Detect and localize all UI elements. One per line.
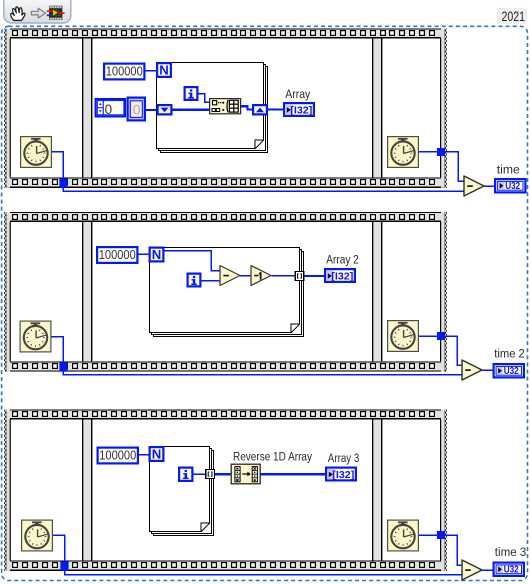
svg-text:U32: U32: [504, 565, 519, 576]
svg-text:N: N: [159, 62, 169, 77]
decrement node -1, loop 2: [251, 266, 271, 286]
sequence 3 bottom sprocket band: [6, 561, 445, 571]
svg-text:100000: 100000: [99, 447, 136, 462]
sequence 2 bottom sprocket band: [6, 361, 445, 371]
tunnel through sequence 1 right border (right timer): [437, 148, 445, 156]
iteration terminal i (loop 1): [185, 87, 198, 100]
wire: [63, 372, 462, 375]
svg-text:N: N: [152, 247, 162, 262]
svg-text:time 3: time 3: [495, 547, 527, 559]
wire: [445, 152, 464, 182]
svg-text:[I32]: [I32]: [290, 105, 312, 116]
sequence 2 right checkered film edge: [444, 212, 447, 372]
sequence 3 separator 2 gray: [373, 420, 381, 561]
iteration terminal i (loop 2): [188, 274, 201, 287]
svg-text:0: 0: [105, 102, 113, 117]
shift register left (down arrow, loop 1): [158, 105, 172, 114]
wire: [63, 188, 464, 191]
wire: [419, 151, 437, 153]
tunnel through sequence 1 bottom border (left timer): [59, 179, 67, 188]
sequence 1 bottom sprocket band: [6, 177, 445, 187]
sequence 3 top sprocket band: [6, 410, 445, 420]
wire: [304, 275, 324, 277]
sequence 3 right checkered film edge: [444, 410, 447, 571]
sequence 3 right gray edge: [441, 410, 445, 571]
sequence 1 left checkered film edge: [4, 29, 7, 188]
shift register right (up arrow, loop 1): [253, 105, 267, 114]
numeric constant 100000 (seq 2): [97, 247, 137, 263]
sequence 2 right gray edge: [441, 212, 445, 372]
for loop 2 (stacked pages with dog-ear): [150, 248, 304, 337]
indicator Array 2 (1-D array of I32): [325, 269, 355, 282]
sequence 2 frame 1 (left) border: [10, 222, 84, 361]
indicator Array (1-D array of I32): [284, 103, 314, 116]
wire: [139, 253, 149, 255]
run (arrow) tool icon: [31, 8, 45, 18]
svg-text:N: N: [152, 446, 162, 461]
wire: [482, 569, 493, 571]
VI snippet icon: [47, 6, 65, 20]
wire: [240, 275, 251, 277]
wire: [202, 280, 221, 282]
svg-text:time: time: [497, 165, 520, 177]
indicator Array 3 (1-D array of I32): [326, 468, 356, 481]
sequence 3 frame 1 (left) border: [10, 420, 84, 561]
wire: [52, 152, 63, 179]
tick count (ms) timer, seq 2 frame 1: [20, 321, 51, 352]
svg-text:100000: 100000: [106, 63, 143, 78]
numeric constant 100000 (seq 1): [104, 63, 144, 79]
sequence 1 frame 3 (right) border: [381, 39, 441, 178]
wire: [484, 185, 494, 187]
svg-text:U32: U32: [504, 366, 519, 377]
wire: [52, 337, 64, 363]
wire: [146, 70, 157, 72]
svg-text:time 2: time 2: [494, 349, 525, 361]
wire: [165, 251, 221, 271]
2021 version badge: [497, 8, 528, 24]
sequence 2 frame 3 (right) border: [381, 222, 441, 361]
tick count (ms) timer U2, frame 1 left: [21, 137, 52, 168]
sequence 2 left gray edge: [6, 212, 10, 372]
svg-text:Reverse 1D Array: Reverse 1D Array: [233, 451, 312, 463]
wire: [268, 108, 283, 110]
tick count (ms) timer, seq 3 frame 3: [388, 520, 419, 551]
build array node (loop 1): [210, 99, 241, 114]
wire: [419, 534, 437, 536]
loop count terminal N (loop 1): [157, 62, 171, 77]
wire: [199, 94, 210, 103]
svg-text:Array: Array: [285, 89, 310, 101]
indicator time 3 (U32): [494, 563, 524, 576]
loop count terminal N (loop 2): [150, 247, 164, 262]
wire: [241, 106, 253, 109]
indicator time (U32): [495, 179, 525, 192]
subtract node for time: [464, 176, 484, 196]
indicator time 2 (U32): [494, 364, 524, 377]
sequence 1 left gray edge: [6, 29, 10, 188]
subtract node for time 2: [462, 360, 482, 380]
sequence 2 top sprocket band: [6, 212, 445, 222]
wire: [445, 336, 462, 365]
svg-text:U32: U32: [505, 181, 520, 192]
svg-text:2021: 2021: [502, 9, 526, 24]
svg-text:Array 3: Array 3: [328, 453, 360, 465]
wire: [139, 454, 149, 456]
sequence 3 left gray edge: [6, 410, 10, 571]
tunnel through sequence 2 bottom border: [59, 362, 67, 371]
subtract node (N - i), loop 2: [220, 266, 240, 286]
sequence 3 frame 3 (right) border: [381, 420, 441, 561]
auto-indexing tunnel (loop 3 right border): [206, 470, 215, 479]
wire: [65, 571, 463, 575]
sequence 1 top sprocket band: [6, 29, 445, 39]
sequence 1 right checkered film edge: [444, 29, 447, 188]
for loop 1 (stacked pages with dog-ear): [157, 63, 268, 153]
tunnel through sequence 3 bottom border: [60, 562, 68, 571]
tick count (ms) timer, seq 2 frame 3: [388, 321, 419, 352]
tunnel through sequence 2 right border: [437, 332, 445, 340]
numeric control 0 with increment/decrement (shift register initializer): [96, 99, 125, 117]
tunnel through sequence 3 right border: [437, 531, 445, 539]
reverse 1D array node: [231, 464, 260, 484]
loop count terminal N (loop 3): [150, 446, 164, 461]
sequence 1 frame 1 (left) border: [10, 39, 84, 178]
sequence 2 frame 2 (middle) border: [91, 222, 373, 361]
numeric constant 100000 (seq 3): [98, 447, 138, 463]
svg-text:Array 2: Array 2: [326, 255, 359, 267]
svg-text:100000: 100000: [99, 247, 136, 262]
sequence 3 separator 1 gray: [83, 420, 91, 561]
sequence 1 right gray edge: [441, 29, 445, 188]
wire: [272, 275, 296, 277]
sequence 2 left checkered film edge: [4, 212, 7, 372]
svg-text:0: 0: [133, 101, 141, 117]
sequence 1 separator 1 gray: [83, 39, 91, 178]
sequence 2 separator 2 gray: [373, 222, 381, 361]
tick count (ms) timer U3, frame 3 right: [388, 137, 419, 168]
wire: [482, 369, 493, 371]
wire: [445, 535, 462, 565]
numeric constant 0 (lavender, feeds shift register): [128, 98, 145, 121]
subtract node for time 3: [462, 560, 482, 580]
sequence 3 left checkered film edge: [4, 410, 7, 571]
wire: [261, 473, 326, 475]
svg-text:[I32]: [I32]: [331, 271, 353, 282]
sequence 3 frame 2 (middle) border: [91, 420, 373, 561]
svg-text:[I32]: [I32]: [332, 470, 354, 481]
sequence 1 separator 2 gray: [373, 39, 381, 178]
for loop 3 (stacked pages with dog-ear): [150, 447, 214, 536]
tick count (ms) timer, seq 3 frame 1: [22, 520, 53, 551]
wire: [194, 473, 207, 475]
auto-indexing tunnel (loop 2 right border): [295, 272, 304, 281]
sequence 1 frame 2 (middle) border: [91, 39, 373, 178]
sequence 2 separator 1 gray: [83, 222, 91, 361]
pan hand tool icon: [11, 7, 25, 21]
wire: [172, 109, 209, 111]
wire: [53, 535, 65, 562]
floating toolbar (top-left): [4, 0, 71, 23]
wire: [419, 335, 437, 337]
wire: [146, 109, 157, 111]
iteration terminal i (loop 3): [179, 468, 192, 481]
wire: [214, 473, 231, 475]
